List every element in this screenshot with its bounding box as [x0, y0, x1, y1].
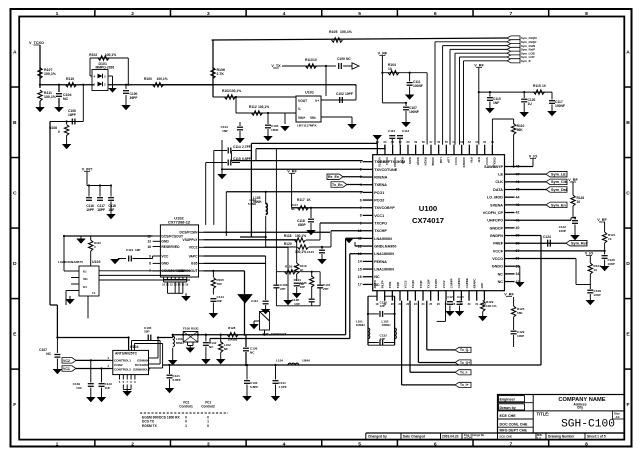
svg-text:PCO2: PCO2 — [374, 198, 384, 202]
svg-text:100NF: 100NF — [413, 84, 423, 88]
svg-text:LNA900IN: LNA900IN — [374, 237, 392, 241]
svg-text:1UF: 1UF — [76, 386, 82, 390]
svg-text:RESERVED: RESERVED — [161, 245, 180, 249]
svg-text:100P: 100P — [517, 334, 524, 338]
svg-text:Date Changed: Date Changed — [403, 435, 425, 439]
svg-text:100,1%: 100,1% — [230, 89, 241, 93]
svg-text:10: 10 — [594, 268, 598, 272]
svg-text:(1K0B): (1K0B) — [228, 338, 237, 342]
svg-text:VCCO: VCCO — [492, 257, 503, 261]
svg-text:IFIP: IFIP — [477, 157, 481, 162]
svg-text:RFAPC: RFAPC — [473, 278, 477, 288]
svg-text:6: 6 — [360, 198, 362, 202]
svg-text:CONTROL1: CONTROL1 — [114, 359, 131, 363]
svg-text:9: 9 — [149, 254, 151, 258]
svg-text:Sym_Ref: Sym_Ref — [571, 242, 588, 246]
svg-text:VOUT: VOUT — [298, 99, 307, 103]
svg-text:14: 14 — [358, 260, 362, 264]
svg-text:F: F — [626, 402, 629, 408]
svg-text:VCC2: VCC2 — [442, 280, 446, 288]
svg-text:VCC3: VCC3 — [454, 157, 458, 165]
svg-text:RXIP: RXIP — [401, 157, 405, 164]
svg-text:R126: R126 — [285, 265, 293, 269]
svg-text:1NF: 1NF — [222, 129, 228, 133]
svg-text:Sheet:1 of 5: Sheet:1 of 5 — [587, 435, 606, 439]
svg-text:GNDFN: GNDFN — [490, 234, 504, 238]
svg-text:1K: 1K — [307, 198, 312, 202]
svg-text:LOB: LOB — [439, 157, 443, 163]
svg-text:C112: C112 — [402, 129, 409, 133]
svg-text:NC: NC — [498, 272, 504, 276]
svg-text:CAPFN: CAPFN — [457, 278, 461, 288]
svg-text:C124: C124 — [307, 250, 315, 254]
svg-text:ANTSW025TC: ANTSW025TC — [115, 352, 138, 356]
svg-text:1: 1 — [56, 441, 59, 447]
svg-text:CAPFP: CAPFP — [450, 278, 454, 288]
svg-text:001: 001 — [83, 277, 88, 281]
svg-text:0: 0 — [185, 420, 187, 424]
svg-text:100,1%: 100,1% — [486, 304, 497, 308]
svg-text:33P: 33P — [144, 330, 149, 334]
svg-text:100,1%: 100,1% — [44, 95, 57, 99]
svg-text:RXQN: RXQN — [424, 157, 428, 165]
svg-text:13: 13 — [147, 240, 151, 244]
svg-text:NC: NC — [291, 207, 295, 211]
svg-text:MMPQ-2926: MMPQ-2926 — [96, 66, 115, 70]
svg-text:2003.04.23: 2003.04.23 — [442, 435, 459, 439]
svg-text:TX15N: TX15N — [434, 279, 438, 288]
svg-text:TXVCOBYP: TXVCOBYP — [374, 206, 395, 210]
svg-text:4: 4 — [283, 441, 286, 447]
svg-text:TXIP: TXIP — [396, 282, 400, 288]
svg-text:Changed by: Changed by — [368, 435, 387, 439]
svg-text:2: 2 — [131, 441, 134, 447]
svg-text:100,1%: 100,1% — [340, 30, 353, 34]
svg-text:L104: L104 — [276, 359, 283, 363]
svg-text:27P: 27P — [280, 287, 285, 291]
svg-text:R120: R120 — [284, 242, 292, 246]
svg-text:V_RF: V_RF — [568, 178, 578, 182]
svg-text:FILTP: FILTP — [380, 280, 384, 288]
svg-text:5: 5 — [358, 11, 361, 17]
svg-text:GND: GND — [161, 262, 169, 266]
svg-text:VCC2: VCC2 — [403, 280, 407, 288]
svg-text:8: 8 — [360, 214, 362, 218]
svg-text:2.7K: 2.7K — [217, 72, 225, 76]
svg-text:CX74017: CX74017 — [412, 216, 444, 225]
svg-text:R118: R118 — [284, 234, 292, 238]
svg-text:NC: NC — [209, 345, 214, 349]
svg-text:VCC2: VCC2 — [189, 246, 198, 250]
svg-text:Sym_IF: Sym_IF — [521, 59, 531, 63]
svg-text:34: 34 — [516, 272, 520, 276]
svg-text:R100: R100 — [144, 77, 152, 81]
svg-text:TITLE:: TITLE: — [537, 412, 550, 417]
svg-text:Tx_I+: Tx_I+ — [460, 383, 469, 387]
svg-text:TXVCOTUNE: TXVCOTUNE — [374, 168, 398, 172]
svg-text:Sym_Dat: Sym_Dat — [551, 188, 568, 192]
svg-text:10: 10 — [577, 200, 581, 204]
svg-text:33P: 33P — [300, 285, 305, 289]
svg-text:VIN+: VIN+ — [298, 116, 305, 120]
svg-text:A: A — [13, 49, 17, 55]
svg-text:VCOFN_CP: VCOFN_CP — [483, 211, 504, 215]
svg-text:15: 15 — [358, 267, 362, 271]
svg-text:V_RF: V_RF — [597, 218, 607, 222]
svg-text:C102: C102 — [336, 92, 344, 96]
svg-text:44: 44 — [516, 195, 520, 199]
svg-text:780: 780 — [217, 282, 222, 286]
svg-text:Drawn by: Drawn by — [500, 406, 516, 410]
svg-text:C131: C131 — [251, 299, 258, 303]
svg-text:C125: C125 — [457, 295, 464, 299]
svg-text:R102: R102 — [89, 53, 97, 57]
svg-text:V+: V+ — [315, 99, 319, 103]
svg-text:100NH: 100NH — [382, 323, 391, 327]
svg-text:TXENA: TXENA — [374, 183, 387, 187]
svg-text:NC: NC — [498, 280, 504, 284]
svg-text:A: A — [626, 49, 630, 55]
svg-text:VC2: VC2 — [63, 359, 70, 363]
svg-text:V-: V- — [298, 107, 301, 111]
svg-text:VAPC: VAPC — [189, 254, 199, 258]
svg-text:18P: 18P — [135, 248, 140, 252]
svg-text:18PF: 18PF — [68, 113, 76, 117]
svg-text:RXIN: RXIN — [408, 157, 412, 164]
svg-text:C124: C124 — [543, 235, 551, 239]
svg-text:6.8PF: 6.8PF — [250, 385, 258, 389]
svg-text:4: 4 — [283, 11, 286, 17]
svg-text:VCCTX: VCCTX — [378, 157, 382, 167]
svg-text:R102: R102 — [222, 89, 230, 93]
svg-text:3: 3 — [207, 441, 210, 447]
svg-text:V_RF: V_RF — [474, 64, 484, 68]
svg-text:Control2: Control2 — [201, 405, 215, 409]
svg-text:16: 16 — [358, 275, 362, 279]
svg-text:R105: R105 — [329, 30, 337, 34]
svg-text:10: 10 — [313, 58, 317, 62]
svg-text:10PF: 10PF — [345, 92, 353, 96]
svg-text:1NF: 1NF — [217, 299, 223, 303]
svg-text:2: 2 — [131, 11, 134, 17]
svg-text:GNDL: GNDL — [493, 157, 497, 165]
svg-text:100NF: 100NF — [409, 110, 419, 114]
svg-text:PCO1: PCO1 — [374, 191, 384, 195]
svg-text:R113: R113 — [305, 58, 313, 62]
svg-text:56K: 56K — [517, 128, 524, 132]
svg-text:VCCF: VCCF — [493, 249, 504, 253]
svg-text:1: 1 — [207, 420, 209, 424]
svg-text:TXIN: TXIN — [388, 282, 392, 289]
svg-text:6.8PF: 6.8PF — [173, 378, 181, 382]
svg-text:City: City — [577, 406, 583, 410]
svg-text:Control1: Control1 — [179, 405, 193, 409]
svg-text:27P: 27P — [323, 287, 328, 291]
svg-text:C119: C119 — [126, 248, 133, 252]
svg-text:100,1%: 100,1% — [157, 77, 168, 81]
svg-text:5: 5 — [358, 441, 361, 447]
svg-text:VCC4: VCC4 — [385, 157, 389, 165]
svg-text:D: D — [626, 261, 630, 267]
svg-text:T4: T4 — [92, 291, 96, 295]
svg-text:EGSM 900/DCS 1800 RX: EGSM 900/DCS 1800 RX — [142, 415, 181, 419]
svg-text:DCS TX: DCS TX — [142, 420, 155, 424]
svg-text:IFIN: IFIN — [470, 157, 474, 162]
svg-text:U100: U100 — [419, 204, 437, 213]
svg-text:TXQP: TXQP — [419, 280, 423, 288]
svg-text:LM?1117MPX: LM?1117MPX — [297, 124, 317, 128]
svg-text:8: 8 — [149, 262, 151, 266]
svg-text:C109: C109 — [337, 57, 345, 61]
svg-text:K1: K1 — [83, 270, 87, 274]
svg-text:TXCPO: TXCPO — [374, 221, 387, 225]
svg-text:VIN: VIN — [310, 116, 316, 120]
svg-text:42: 42 — [516, 211, 520, 215]
svg-text:Rx_En: Rx_En — [328, 175, 339, 179]
svg-text:D4: D4 — [83, 285, 87, 289]
svg-text:100,1%: 100,1% — [295, 234, 306, 238]
svg-text:V_RF: V_RF — [504, 293, 514, 297]
svg-text:8: 8 — [585, 441, 588, 447]
svg-text:1.0: 1.0 — [537, 436, 541, 440]
svg-text:NC: NC — [224, 347, 229, 351]
svg-text:TXQN: TXQN — [411, 280, 415, 288]
svg-text:V_IO: V_IO — [529, 155, 538, 159]
svg-text:SXENA: SXENA — [490, 203, 503, 207]
svg-text:10: 10 — [388, 67, 392, 71]
svg-text:17: 17 — [358, 283, 362, 287]
svg-text:56K: 56K — [517, 311, 523, 315]
svg-text:NC: NC — [374, 275, 380, 279]
svg-text:GNDO: GNDO — [492, 265, 503, 269]
svg-text:DCS/PCSOUT: DCS/PCSOUT — [161, 234, 183, 238]
svg-text:1U: 1U — [528, 102, 533, 106]
svg-text:0: 0 — [58, 130, 60, 134]
svg-text:V_RF: V_RF — [287, 170, 297, 174]
svg-text:100NF: 100NF — [555, 104, 565, 108]
svg-text:2.7PF: 2.7PF — [242, 145, 251, 149]
svg-text:100NH: 100NH — [356, 323, 365, 327]
svg-text:1: 1 — [94, 82, 96, 86]
svg-text:RXENA: RXENA — [374, 175, 387, 179]
svg-text:CON2: CON2 — [114, 363, 123, 367]
svg-text:100,1%: 100,1% — [258, 105, 269, 109]
svg-text:ECE CHE: ECE CHE — [500, 414, 517, 418]
svg-text:GNDB: GNDB — [431, 157, 435, 165]
svg-text:6: 6 — [434, 441, 437, 447]
svg-text:NC: NC — [250, 351, 255, 355]
svg-text:R115: R115 — [533, 84, 541, 88]
svg-text:GNDLNA900: GNDLNA900 — [374, 244, 396, 248]
svg-text:Engineer: Engineer — [500, 398, 516, 402]
svg-text:V_INT: V_INT — [82, 168, 93, 172]
svg-text:C114: C114 — [233, 145, 241, 149]
svg-text:V_TCXO: V_TCXO — [29, 41, 44, 45]
svg-text:6: 6 — [434, 11, 437, 17]
svg-text:10PF: 10PF — [86, 208, 94, 212]
svg-text:GSM900: GSM900 — [137, 359, 149, 363]
svg-text:TXCHP: TXCHP — [374, 229, 387, 233]
svg-text:C: C — [626, 190, 630, 196]
svg-text:Tx_En: Tx_En — [332, 183, 343, 187]
svg-text:16: 16 — [147, 245, 151, 249]
svg-text:10: 10 — [608, 237, 612, 241]
svg-text:1NF: 1NF — [493, 101, 499, 105]
svg-text:GND: GND — [161, 240, 169, 244]
svg-text:V_RF: V_RF — [378, 52, 388, 56]
svg-text:680P: 680P — [298, 223, 307, 227]
svg-text:15NF: 15NF — [271, 128, 279, 132]
svg-text:V_IO: V_IO — [585, 252, 594, 256]
svg-text:C110: C110 — [388, 129, 395, 133]
svg-text:SAWBBYP: SAWBBYP — [484, 165, 503, 169]
svg-text:U101: U101 — [305, 91, 314, 95]
svg-text:EGSM TX: EGSM TX — [142, 424, 158, 428]
svg-text:R112: R112 — [249, 105, 257, 109]
svg-text:V_TX: V_TX — [271, 64, 281, 68]
svg-text:R110: R110 — [66, 77, 74, 81]
svg-text:DCS1800: DCS1800 — [135, 363, 149, 367]
svg-text:100,1%: 100,1% — [44, 72, 57, 76]
svg-text:MFG DEPT CHE: MFG DEPT CHE — [500, 429, 528, 433]
svg-text:CX77306-12: CX77306-12 — [168, 220, 191, 225]
svg-text:VCC: VCC — [161, 254, 169, 258]
svg-text:10: 10 — [542, 84, 546, 88]
svg-text:SGH-C100: SGH-C100 — [561, 419, 615, 431]
svg-text:LE: LE — [498, 173, 503, 177]
svg-text:Tx_Q+: Tx_Q+ — [460, 361, 470, 365]
svg-text:39PF: 39PF — [130, 96, 138, 100]
svg-text:1UF: 1UF — [105, 386, 111, 390]
svg-text:0: 0 — [207, 424, 209, 428]
svg-text:GSM900OUT: GSM900OUT — [133, 368, 151, 372]
svg-text:UHFCPO: UHFCPO — [487, 219, 503, 223]
svg-text:C127: C127 — [447, 295, 454, 299]
svg-text:GS5: GS5 — [191, 262, 198, 266]
svg-text:LX24D10NA0B7V: LX24D10NA0B7V — [58, 260, 84, 264]
svg-text:Sym_En: Sym_En — [551, 203, 566, 207]
svg-text:VCC2: VCC2 — [485, 157, 489, 165]
svg-text:CLK: CLK — [495, 180, 503, 184]
svg-text:B: B — [13, 120, 17, 126]
svg-text:LNA1800IN: LNA1800IN — [374, 252, 394, 256]
svg-text:LPF: LPF — [480, 283, 484, 289]
svg-text:5.6NH: 5.6NH — [248, 202, 256, 206]
svg-text:12P: 12P — [380, 304, 385, 308]
svg-text:F100: F100 — [183, 327, 190, 331]
svg-text:NC: NC — [63, 97, 69, 101]
svg-text:GNDRX: GNDRX — [462, 157, 466, 167]
svg-text:CONTROL2: CONTROL2 — [114, 368, 131, 372]
svg-text:100,1%: 100,1% — [105, 53, 116, 57]
svg-text:3: 3 — [207, 11, 210, 17]
svg-text:100P: 100P — [594, 293, 601, 297]
svg-text:0: 0 — [185, 415, 187, 419]
svg-text:GNDCP: GNDCP — [490, 226, 504, 230]
svg-text:LO_MOD: LO_MOD — [487, 196, 503, 200]
svg-text:100P: 100P — [608, 262, 615, 266]
svg-text:R117: R117 — [297, 198, 305, 202]
svg-text:RXQP: RXQP — [416, 157, 420, 165]
svg-text:DCS/PCSIN: DCS/PCSIN — [180, 231, 199, 235]
svg-text:LNA1900IN: LNA1900IN — [374, 267, 394, 271]
svg-text:FEENA: FEENA — [374, 260, 387, 264]
svg-text:10NH: 10NH — [302, 359, 311, 363]
svg-text:Sym_LE: Sym_LE — [551, 173, 566, 177]
svg-text:100P: 100P — [559, 229, 566, 233]
svg-text:VSUPPLY: VSUPPLY — [182, 238, 198, 242]
svg-text:DATA: DATA — [493, 188, 503, 192]
svg-text:VCC1: VCC1 — [374, 214, 384, 218]
svg-text:Sym_Clk: Sym_Clk — [551, 180, 568, 184]
svg-text:Tx_I-: Tx_I- — [460, 371, 468, 375]
svg-text:VC1: VC1 — [63, 367, 70, 371]
svg-text:of CHE: of CHE — [464, 436, 473, 440]
svg-text:CAPFB: CAPFB — [465, 278, 469, 288]
svg-text:VCCRX: VCCRX — [393, 157, 397, 167]
svg-text:8: 8 — [585, 11, 588, 17]
svg-text:1: 1 — [56, 11, 59, 17]
svg-text:B: B — [626, 120, 630, 126]
svg-text:3: 3 — [104, 74, 106, 78]
svg-text:RX3G: RX3G — [191, 327, 200, 331]
svg-text:2: 2 — [104, 82, 106, 86]
svg-text:DOC CONL CHE: DOC CONL CHE — [500, 422, 529, 426]
svg-text:TX15P: TX15P — [426, 279, 430, 288]
svg-text:7: 7 — [509, 11, 512, 17]
svg-text:NC: NC — [46, 352, 51, 356]
svg-text:ECE CHE: ECE CHE — [500, 435, 513, 439]
svg-text:R128: R128 — [228, 326, 236, 330]
svg-text:C: C — [13, 190, 17, 196]
svg-text:F: F — [13, 402, 16, 408]
svg-text:7: 7 — [509, 441, 512, 447]
svg-text:U103: U103 — [92, 260, 100, 264]
svg-text:40: 40 — [516, 226, 520, 230]
svg-text:Tx_Q-: Tx_Q- — [460, 348, 469, 352]
svg-text:FILTN: FILTN — [373, 280, 377, 288]
svg-text:Drawing Number: Drawing Number — [548, 435, 575, 439]
svg-text:NC: NC — [346, 57, 351, 61]
svg-text:0: 0 — [207, 415, 209, 419]
svg-text:LOP: LOP — [447, 157, 451, 163]
svg-text:1.5PF: 1.5PF — [279, 385, 287, 389]
svg-text:D: D — [13, 261, 17, 267]
svg-text:4: 4 — [94, 74, 96, 78]
svg-text:1: 1 — [185, 424, 187, 428]
svg-text:18PF: 18PF — [97, 208, 105, 212]
svg-text:A4: A4 — [616, 415, 620, 419]
svg-text:FREF: FREF — [493, 242, 503, 246]
